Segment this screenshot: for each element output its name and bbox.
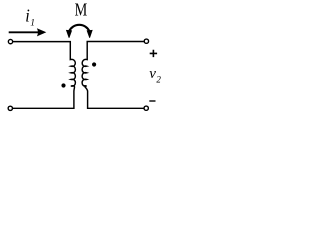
current arrow i1: [9, 28, 47, 36]
svg-text:v: v: [149, 66, 156, 82]
terminal top-left: [8, 39, 12, 43]
mutual coupling arrow: [66, 25, 93, 38]
terminal top-right: [144, 39, 148, 43]
polarity dot left coil: [61, 83, 65, 87]
polarity dot right coil: [92, 62, 96, 66]
inductor L2: [82, 42, 144, 109]
terminal bottom-left: [8, 106, 12, 110]
terminal bottom-right: [144, 106, 148, 110]
minus sign: [149, 100, 155, 102]
svg-text:1: 1: [30, 19, 35, 29]
plus sign: [150, 50, 157, 57]
label i1: [25, 6, 35, 29]
label v2: [149, 66, 161, 85]
inductor L1: [13, 42, 76, 109]
svg-text:2: 2: [156, 75, 161, 85]
svg-text:M: M: [75, 0, 88, 20]
